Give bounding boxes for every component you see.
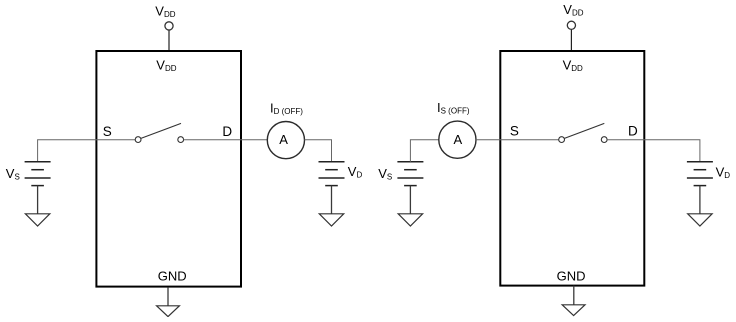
battery VD (right circuit): [687, 162, 713, 186]
wire VDD terminal to box top (right circuit): [570, 30, 572, 51]
wire VS battery to ground (left circuit): [37, 186, 39, 214]
wire VDD terminal to box top (left circuit): [168, 30, 170, 50]
DUT box U2 (right circuit): [500, 51, 644, 286]
svg-text:S: S: [103, 124, 112, 139]
ground below VD (right circuit): [688, 214, 712, 226]
wire switch to ammeter (left circuit): [184, 139, 268, 141]
svg-text:GND: GND: [557, 268, 586, 283]
battery VS (right circuit): [397, 162, 423, 186]
switch blade SW1 (left circuit): [141, 123, 181, 138]
terminal circle VDD (right circuit): [567, 21, 575, 29]
wire VD battery to ground (right circuit): [699, 186, 701, 214]
ground below VS (right circuit): [398, 214, 422, 226]
wire box bottom to ground (right circuit): [573, 286, 575, 305]
wire ammeter to switch pole (right circuit): [476, 139, 559, 141]
wire box bottom to ground (left circuit): [167, 288, 169, 306]
wire VD battery to ground (left circuit): [331, 186, 333, 214]
ground below box GND (left circuit): [157, 306, 180, 317]
switch contact circle left (left circuit): [135, 137, 141, 143]
DUT box U1 (left circuit): [96, 51, 241, 287]
svg-text:A: A: [279, 132, 288, 147]
wire VS battery to ground (right circuit): [409, 186, 411, 214]
switch contact circle right (left circuit): [178, 137, 184, 143]
battery VD (left circuit): [319, 162, 345, 186]
switch contact circle right (right circuit): [601, 137, 607, 143]
svg-text:D: D: [222, 124, 232, 139]
ground below box GND (right circuit): [562, 305, 585, 316]
ammeter A1 (left circuit): [267, 122, 304, 159]
ground below VD (left circuit): [319, 214, 343, 226]
ammeter A2 (right circuit): [439, 121, 476, 158]
wire switch to VD battery (right circuit): [607, 140, 700, 162]
switch blade SW2 (right circuit): [564, 123, 604, 138]
switch contact circle left (right circuit): [559, 137, 565, 143]
wire VS battery to ammeter (right circuit): [410, 140, 438, 162]
svg-text:D: D: [628, 124, 638, 139]
ground below VS (left circuit): [25, 214, 49, 226]
wire ammeter to VD battery (left circuit): [305, 140, 332, 162]
svg-text:A: A: [453, 132, 462, 147]
wire VS battery to switch pole (left circuit): [38, 140, 136, 162]
battery VS (left circuit): [25, 162, 51, 186]
svg-text:GND: GND: [158, 268, 187, 283]
svg-text:S: S: [510, 124, 519, 139]
terminal circle VDD (left circuit): [165, 22, 173, 30]
